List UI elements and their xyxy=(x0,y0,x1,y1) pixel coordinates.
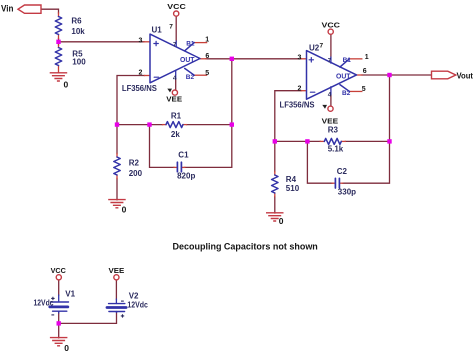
svg-text:5.1k: 5.1k xyxy=(328,145,344,154)
svg-text:V2: V2 xyxy=(129,291,139,300)
svg-text:R1: R1 xyxy=(171,112,182,121)
svg-text:Vout: Vout xyxy=(457,70,474,80)
svg-text:R6: R6 xyxy=(71,17,82,26)
svg-text:2: 2 xyxy=(139,69,143,76)
svg-text:2k: 2k xyxy=(171,130,180,139)
svg-text:12Vdc: 12Vdc xyxy=(127,301,148,310)
svg-text:510: 510 xyxy=(286,184,300,193)
svg-text:4: 4 xyxy=(173,75,177,82)
svg-text:U1: U1 xyxy=(152,25,163,34)
svg-text:VEE: VEE xyxy=(322,116,339,125)
svg-text:12Vdc: 12Vdc xyxy=(34,299,54,308)
svg-text:Decoupling Capacitors not show: Decoupling Capacitors not shown xyxy=(173,241,318,252)
svg-text:VCC: VCC xyxy=(51,266,67,275)
svg-text:R2: R2 xyxy=(129,158,140,167)
svg-text:7: 7 xyxy=(320,43,324,50)
svg-text:6: 6 xyxy=(363,68,367,75)
svg-text:330p: 330p xyxy=(338,187,356,196)
svg-text:B2: B2 xyxy=(186,74,195,81)
svg-text:LF356/NS: LF356/NS xyxy=(122,84,158,93)
svg-text:B2: B2 xyxy=(342,90,351,97)
svg-text:R4: R4 xyxy=(286,175,297,184)
svg-text:B1: B1 xyxy=(343,57,352,64)
svg-text:B1: B1 xyxy=(186,41,195,48)
svg-text:7: 7 xyxy=(169,23,173,30)
svg-text:U2: U2 xyxy=(309,44,320,53)
svg-text:VCC: VCC xyxy=(167,2,186,11)
svg-text:1: 1 xyxy=(365,54,369,61)
svg-text:3: 3 xyxy=(298,54,302,61)
svg-text:VCC: VCC xyxy=(322,20,341,29)
svg-text:VEE: VEE xyxy=(166,94,182,103)
svg-text:820p: 820p xyxy=(177,171,195,180)
svg-text:6: 6 xyxy=(205,53,209,60)
svg-text:5: 5 xyxy=(362,86,366,93)
svg-text:0: 0 xyxy=(279,216,284,226)
svg-text:2: 2 xyxy=(298,86,302,93)
svg-text:5: 5 xyxy=(205,70,209,77)
svg-text:0: 0 xyxy=(64,80,69,90)
svg-text:LF356/NS: LF356/NS xyxy=(280,100,316,109)
svg-text:4: 4 xyxy=(328,91,332,98)
svg-text:0: 0 xyxy=(64,343,69,353)
svg-text:R3: R3 xyxy=(328,125,339,134)
svg-text:OUT: OUT xyxy=(336,73,351,80)
svg-text:1: 1 xyxy=(205,37,209,44)
svg-text:0: 0 xyxy=(122,204,127,214)
svg-text:100: 100 xyxy=(72,57,86,66)
svg-text:V1: V1 xyxy=(65,289,75,298)
svg-text:OUT: OUT xyxy=(180,57,195,64)
svg-text:VEE: VEE xyxy=(109,266,125,275)
svg-text:Vin: Vin xyxy=(1,4,14,14)
svg-text:C1: C1 xyxy=(178,150,189,159)
svg-text:10k: 10k xyxy=(71,27,85,36)
svg-text:200: 200 xyxy=(129,169,143,178)
svg-text:3: 3 xyxy=(139,37,143,44)
svg-text:C2: C2 xyxy=(337,167,348,176)
